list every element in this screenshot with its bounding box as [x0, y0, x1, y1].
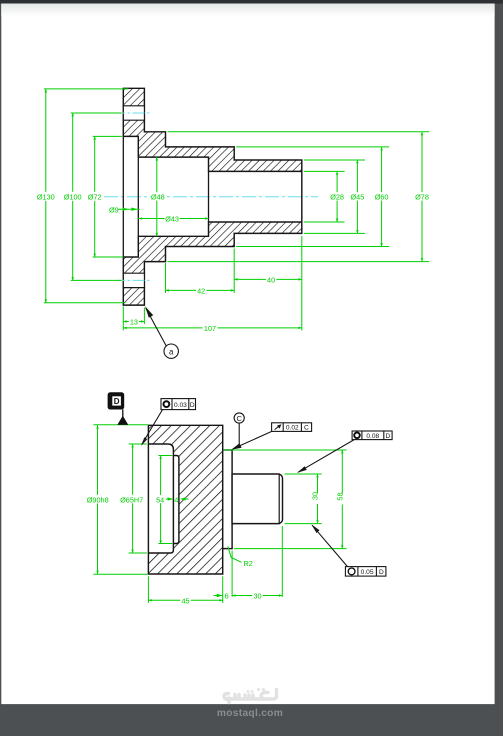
dimension 54 (inner bore)	[160, 456, 162, 544]
recess floor edge across counterbore	[137, 157, 139, 236]
dimension 4 (step depth) with arrows	[166, 495, 189, 504]
svg-text:R2: R2	[244, 559, 253, 568]
shaft Ø30 with chamfered end	[232, 474, 282, 524]
bolt hole centerline bottom	[117, 279, 152, 281]
dimension 40	[234, 275, 302, 284]
svg-text:Ø72: Ø72	[88, 193, 102, 202]
svg-text:Ø90h8: Ø90h8	[87, 495, 109, 504]
green extension lines	[93, 425, 346, 603]
svg-text:42: 42	[197, 287, 205, 296]
svg-text:0.05: 0.05	[361, 569, 374, 576]
leader a (flange corner callout)	[145, 306, 178, 358]
extension lines left side	[44, 89, 129, 303]
dimension Ø100	[72, 113, 74, 280]
svg-text:a: a	[169, 347, 174, 356]
chamfer edge line	[278, 474, 280, 524]
bolt hole gap bottom	[123, 273, 145, 287]
dimension Ø130	[45, 89, 47, 303]
centerline main axis	[104, 196, 318, 198]
bolt hole centerline top	[117, 112, 152, 114]
dimension Ø65H7	[132, 444, 134, 553]
feature control frame 0.05 D (circularity)	[311, 524, 386, 576]
dimension Ø78	[421, 132, 423, 262]
feature control frame 0.08 D (concentricity)	[297, 431, 392, 473]
svg-text:0.03: 0.03	[174, 402, 187, 409]
svg-text:40: 40	[267, 276, 275, 285]
dimension Ø90h8	[97, 425, 99, 574]
datum target circle C	[234, 413, 244, 447]
dimension Ø48	[156, 157, 158, 236]
svg-text:0.02: 0.02	[286, 425, 299, 432]
svg-text:54: 54	[156, 495, 164, 504]
body block with stepped counterbore (hatched section)	[148, 425, 222, 574]
svg-text:Ø65H7: Ø65H7	[120, 495, 143, 504]
dimension 30 (shaft dia, rotated)	[317, 474, 319, 524]
svg-text:D: D	[379, 569, 384, 576]
svg-text:C: C	[236, 414, 242, 423]
leader R2 (fillet)	[228, 546, 253, 568]
feature control frame 0.03 D (concentricity)	[141, 399, 195, 446]
extension lines right side	[168, 132, 430, 262]
dimension 107 (overall length)	[123, 324, 301, 333]
dimension Ø45	[356, 160, 358, 233]
svg-text:6: 6	[225, 592, 229, 601]
extension lines bottom dims	[123, 236, 301, 331]
dimension Ø9 (bolt hole)	[109, 205, 140, 214]
flange left face edge across recess	[122, 136, 124, 257]
right end face edge across bore	[301, 171, 303, 222]
svg-text:4: 4	[174, 495, 178, 504]
svg-text:13: 13	[130, 318, 138, 327]
svg-text:Ø78: Ø78	[415, 193, 429, 202]
dimension 6 (collar width)	[214, 592, 230, 601]
section material lower half (mirror), hatched	[123, 222, 301, 305]
feature control frame 0.02 C (circular runout)	[231, 423, 311, 450]
dimension 30 (shaft length)	[232, 592, 282, 601]
datum D symbol	[108, 392, 129, 425]
dimension 58 (collar dia, rotated)	[341, 450, 343, 549]
collar Ø58	[223, 450, 232, 549]
dimension 13 (flange thickness)	[123, 318, 144, 327]
dimension Ø72	[94, 136, 96, 257]
svg-text:Ø45: Ø45	[351, 193, 365, 202]
svg-text:Ø130: Ø130	[37, 193, 55, 202]
svg-text:107: 107	[204, 324, 216, 333]
svg-text:Ø43: Ø43	[165, 215, 179, 224]
svg-text:Ø100: Ø100	[64, 193, 82, 202]
svg-text:45: 45	[181, 596, 189, 605]
svg-text:30: 30	[253, 592, 261, 601]
dimension Ø60	[381, 147, 383, 247]
svg-text:0.08: 0.08	[366, 433, 379, 440]
dimension Ø28	[336, 171, 338, 222]
mostaql arabic logo (light gray)	[224, 690, 277, 703]
dimension 45 (block depth)	[148, 596, 222, 605]
top dark bar	[0, 0, 503, 4]
bolt hole gap top (white break in flange hatch)	[123, 106, 145, 120]
svg-text:Ø9: Ø9	[109, 205, 119, 214]
svg-text:D: D	[114, 397, 120, 406]
svg-text:D: D	[386, 433, 391, 440]
svg-text:58: 58	[335, 492, 344, 500]
svg-text:C: C	[304, 425, 309, 432]
svg-text:Ø28: Ø28	[330, 193, 344, 202]
dimension 42	[166, 286, 235, 295]
dimension Ø43 (counterbore)	[138, 214, 208, 223]
svg-text:30: 30	[311, 492, 320, 500]
section material upper half (flange + hub steps), hatched	[123, 88, 301, 171]
svg-text:Ø48: Ø48	[151, 193, 165, 202]
svg-text:mostaql.com: mostaql.com	[217, 708, 283, 719]
svg-text:Ø60: Ø60	[375, 193, 389, 202]
svg-text:D: D	[190, 402, 195, 409]
counterbore floor edge across bore	[208, 171, 210, 222]
